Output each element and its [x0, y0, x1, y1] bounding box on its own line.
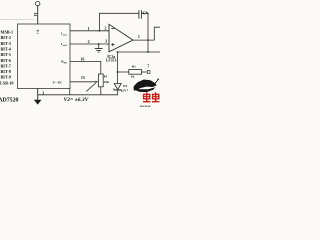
svg-text:14: 14 — [33, 12, 38, 16]
svg-text:BIT-9: BIT-9 — [1, 75, 11, 80]
supply terminal circle — [36, 1, 40, 5]
svg-text:LSB-10: LSB-10 — [0, 80, 14, 85]
svg-text:V2= ±6.3V: V2= ±6.3V — [64, 97, 90, 103]
op-amp minus sign — [111, 27, 114, 29]
svg-text:BIT-8: BIT-8 — [1, 69, 11, 74]
svg-text:BIT-5: BIT-5 — [1, 52, 11, 57]
op-amp output wire — [133, 39, 154, 41]
svg-text:www.cc: www.cc — [140, 104, 152, 108]
svg-text:2V7: 2V7 — [122, 89, 128, 93]
svg-text:BIT-2: BIT-2 — [1, 35, 11, 40]
svg-text:2: 2 — [105, 26, 107, 31]
watermark red character 1 — [143, 92, 151, 101]
junction dot rail corner — [117, 51, 119, 53]
watermark red character 2 — [152, 92, 160, 101]
svg-text:V– IN: V– IN — [52, 81, 62, 85]
junction dot R1 tap — [117, 71, 119, 73]
wire zener to bottom rail — [117, 90, 119, 95]
svg-text:C*: C* — [143, 10, 148, 15]
svg-text:BIT-7: BIT-7 — [1, 63, 11, 68]
terminal square at R1 output — [147, 71, 150, 74]
ground symbol at op-amp non-inverting input — [95, 49, 103, 53]
svg-text:3: 3 — [42, 91, 44, 96]
junction dot output node — [147, 39, 149, 41]
node junction dot ground tap — [98, 43, 100, 45]
svg-text:P1: P1 — [104, 75, 108, 79]
svg-text:1: 1 — [88, 26, 90, 31]
svg-text:MSB-1: MSB-1 — [1, 30, 14, 35]
feedback wire top — [99, 13, 138, 31]
op-amp U2 triangle — [109, 24, 133, 52]
zener diode D1 triangle — [114, 84, 121, 90]
svg-text:2: 2 — [88, 39, 90, 44]
DAC U1 AD7520 box — [18, 24, 71, 89]
svg-text:AD7520: AD7520 — [0, 98, 19, 104]
svg-text:1k: 1k — [131, 75, 135, 79]
watermark tassel — [155, 80, 158, 84]
svg-text:1: 1 — [138, 34, 140, 39]
svg-text:BIT-4: BIT-4 — [1, 47, 12, 52]
output wire jog to right edge — [154, 27, 160, 40]
background — [0, 0, 160, 110]
svg-text:3: 3 — [105, 39, 107, 44]
svg-text:BIT-3: BIT-3 — [1, 41, 11, 46]
wire potentiometer bottom to rail — [100, 87, 102, 95]
feedback wire right segment down to output — [142, 13, 149, 40]
V2 annotation arrow — [86, 83, 96, 91]
watermark cap black shape — [134, 80, 157, 93]
svg-text:7: 7 — [147, 65, 149, 69]
capacitor C* plates — [139, 10, 142, 19]
svg-text:16: 16 — [80, 56, 84, 61]
potentiometer P1 body — [98, 74, 103, 87]
wire zener branch vertical — [117, 52, 119, 84]
svg-text:R1: R1 — [132, 64, 137, 68]
lower output rail wire — [118, 51, 161, 53]
svg-text:LF353: LF353 — [106, 59, 117, 63]
junction dot rail — [147, 51, 149, 53]
bottom rail wire V2 — [38, 94, 118, 96]
svg-text:10k: 10k — [104, 80, 109, 84]
wire DAC pin16 RFB to potentiometer top — [70, 61, 100, 74]
svg-text:15: 15 — [81, 75, 85, 80]
wire output node down to lower rail — [147, 40, 149, 52]
wire pin1 Iout1 to op-amp inverting input — [70, 30, 109, 32]
svg-text:V+: V+ — [35, 30, 39, 35]
wire pin2 Iout2 to op-amp non-inverting input — [70, 43, 109, 45]
ground symbol below DAC — [34, 100, 42, 105]
wire ground tap — [98, 44, 100, 48]
resistor R1 body — [129, 70, 142, 75]
node junction dot feedback on inverting wire — [99, 30, 101, 32]
wire DAC pin3 to ground — [37, 89, 39, 101]
wire to R1 — [118, 71, 129, 73]
svg-text:D1: D1 — [123, 84, 127, 88]
wire DAC pin15 VREF to wiper — [70, 81, 96, 83]
op-amp plus sign — [111, 43, 114, 46]
wiper arrowhead — [96, 81, 99, 83]
zener diode cathode bar — [114, 89, 122, 92]
wire R1 right lead — [142, 71, 148, 73]
wire V+ supply to DAC pin 14 — [37, 6, 39, 24]
svg-text:BIT-6: BIT-6 — [1, 58, 11, 63]
scan artifact faint line — [0, 18, 36, 20]
